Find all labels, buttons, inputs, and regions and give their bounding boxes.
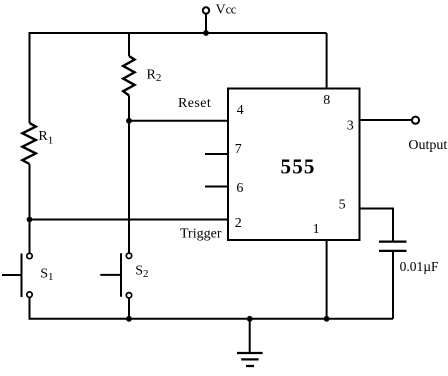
svg-text:Output: Output bbox=[408, 138, 447, 153]
svg-text:1: 1 bbox=[313, 222, 320, 237]
svg-text:555: 555 bbox=[281, 155, 316, 179]
svg-text:8: 8 bbox=[323, 93, 330, 108]
svg-text:0.01µF: 0.01µF bbox=[400, 259, 439, 274]
svg-text:4: 4 bbox=[237, 103, 244, 118]
svg-text:Vcc: Vcc bbox=[216, 3, 237, 18]
svg-text:6: 6 bbox=[236, 181, 243, 196]
svg-text:7: 7 bbox=[235, 142, 242, 157]
svg-text:Trigger: Trigger bbox=[180, 226, 222, 241]
svg-text:2: 2 bbox=[235, 216, 242, 231]
svg-text:3: 3 bbox=[347, 119, 354, 134]
svg-text:5: 5 bbox=[339, 198, 346, 213]
svg-text:Reset: Reset bbox=[178, 96, 211, 111]
